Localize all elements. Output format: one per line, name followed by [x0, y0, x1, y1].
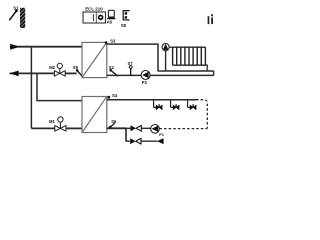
cold water line — [126, 140, 130, 142]
terminal S8 — [121, 11, 130, 28]
sensor S7 — [128, 61, 134, 75]
circulation line — [126, 127, 130, 129]
supply arrow — [10, 44, 19, 50]
sensor S2 — [109, 65, 118, 76]
heating pump riser — [165, 50, 167, 71]
tap 3 — [188, 100, 197, 111]
outdoor sensor S1 — [9, 6, 19, 21]
lower primary pipe segment 2 — [66, 127, 82, 129]
sensor S4 — [107, 93, 117, 99]
lower primary pipe into DHW exchanger — [31, 127, 54, 129]
heat exchanger 1 (heating) — [82, 42, 107, 77]
svg-text:S4: S4 — [112, 93, 118, 98]
secondary return line C — [107, 74, 214, 76]
check valve cold water — [130, 138, 141, 144]
return pipe west — [10, 72, 55, 74]
tap 1 — [154, 100, 163, 111]
u-turn east — [213, 71, 215, 75]
svg-text:S1: S1 — [13, 6, 19, 11]
return arrow — [10, 71, 19, 77]
heating circuit pump — [162, 44, 173, 51]
vertical id text top right — [208, 14, 213, 24]
cold water inlet arrow — [157, 138, 164, 144]
svg-text:S5: S5 — [73, 65, 79, 70]
sensor S5 with jog into exchanger — [73, 65, 83, 77]
supply branch down (to DHW exchanger) — [30, 47, 32, 129]
svg-text:P1: P1 — [159, 133, 164, 137]
svg-text:M2: M2 — [49, 65, 55, 70]
svg-text:S8: S8 — [121, 23, 127, 28]
circulation dashed return — [159, 128, 207, 130]
branch vertical east — [125, 128, 127, 141]
valve M1 — [49, 117, 66, 131]
DHW supply dashed continuation — [196, 100, 207, 129]
valve M2 — [49, 63, 65, 76]
circulation line 2 — [141, 127, 151, 129]
radiator outlet elbow — [205, 65, 207, 71]
svg-text:P2: P2 — [142, 80, 148, 85]
sensor S3 — [105, 39, 116, 44]
pump P1 — [151, 125, 164, 137]
tap 2 — [171, 100, 180, 111]
supply pipe west — [10, 46, 82, 48]
svg-text:M1: M1 — [49, 119, 55, 124]
svg-text:A6: A6 — [107, 20, 113, 25]
radiator — [173, 47, 206, 65]
pump P2 — [141, 71, 150, 86]
heat exchanger 2 (DHW) — [82, 97, 107, 133]
DHW outlet pipe — [107, 127, 126, 129]
line B under radiator — [158, 70, 214, 72]
room unit A6 — [107, 10, 116, 24]
svg-text:S2: S2 — [109, 65, 115, 70]
cold water line 2 — [141, 140, 157, 142]
secondary supply pipe from S3 — [107, 44, 158, 71]
return branch down to DHW exchanger — [37, 73, 82, 100]
sensor S6 — [109, 119, 117, 129]
controller ECL 210 — [83, 7, 106, 23]
wall bar for S1 — [20, 8, 25, 28]
check valve circulation — [131, 125, 142, 131]
return pipe west segment 2 — [65, 72, 76, 74]
svg-text:S3: S3 — [110, 39, 116, 44]
DHW supply pipe — [107, 99, 196, 101]
svg-text:S6: S6 — [111, 119, 117, 124]
